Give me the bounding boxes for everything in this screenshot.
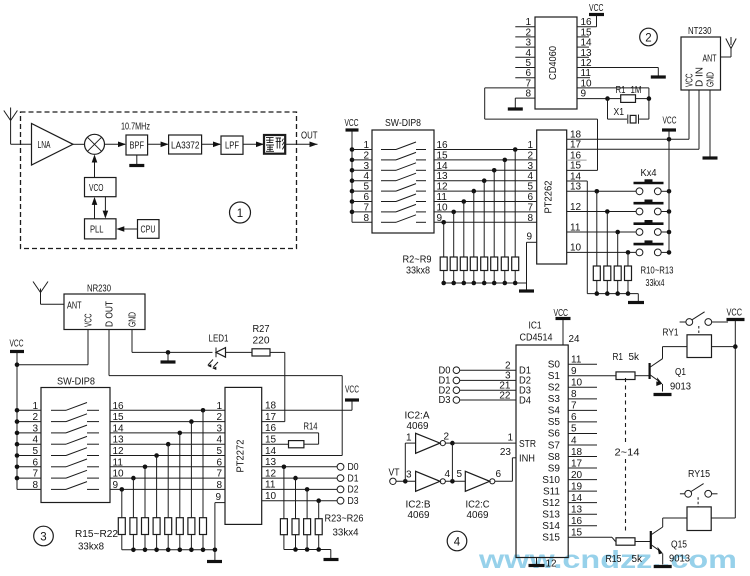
CD4060 right pin numbers [581,17,593,99]
svg-text:S3: S3 [548,394,561,405]
svg-text:LED1: LED1 [209,334,229,345]
wire PLL to VCO arrow up [92,197,98,219]
block LA3372 [169,135,202,154]
svg-text:5k: 5k [632,554,643,565]
ground at Q15 emitter [654,565,672,568]
svg-text:VCC: VCC [589,3,604,14]
svg-text:S15: S15 [542,533,560,544]
wire IC2:C to INH [495,447,535,481]
ground rail R23-R26 [284,547,339,559]
svg-text:33kx8: 33kx8 [78,542,104,553]
svg-text:VCC: VCC [345,118,359,129]
svg-text:S5: S5 [548,417,561,428]
wire NT230 DIN pin to PT2262 pin17 [567,90,699,149]
svg-text:RY1: RY1 [663,328,679,339]
LED1 [207,334,229,371]
svg-text:VT: VT [389,468,400,479]
svg-text:IC2:C: IC2:C [466,500,490,511]
svg-text:S9: S9 [548,463,561,474]
svg-text:10.7MHz: 10.7MHz [121,122,150,133]
module NR230 body [64,284,145,330]
svg-text:Q15: Q15 [671,540,687,551]
svg-text:7: 7 [527,202,533,213]
VCC symbol near keys [662,116,677,140]
svg-text:D0: D0 [348,462,359,473]
svg-text:CD4060: CD4060 [548,46,559,80]
svg-text:R10~R13: R10~R13 [641,266,674,277]
IC CD4060 left pin lines 1-8 [515,17,535,99]
svg-text:4069: 4069 [407,421,429,432]
svg-text:17: 17 [570,140,582,151]
ground at NT230 GND pin [703,90,718,158]
wire R27 to PT2272 pin17 VT [262,352,285,421]
svg-text:33kx8: 33kx8 [406,266,430,277]
svg-text:R15~R22: R15~R22 [75,529,118,540]
svg-text:6: 6 [496,469,502,480]
circled number 4 [447,531,467,551]
PT2272 right pin numbers [265,401,277,502]
svg-text:PT2272: PT2272 [235,439,246,472]
block CPU [138,220,160,239]
svg-text:BPF: BPF [130,141,145,152]
svg-text:8: 8 [216,480,222,491]
svg-text:D2: D2 [348,485,359,496]
svg-text:CPU: CPU [141,225,156,236]
svg-text:S6: S6 [548,429,561,440]
svg-text:NT230: NT230 [688,26,712,37]
svg-text:8: 8 [363,213,369,224]
SW-DIP8 section3 left pins [15,401,41,491]
block LPF [221,136,243,154]
circled number 1 [230,202,251,223]
PT2262 pin9 to ground rail [526,232,536,284]
resistors R23-R26 33kx4 [280,467,364,550]
svg-text:3: 3 [406,470,412,481]
wire CD4060 pin9 node [577,96,651,119]
svg-text:IC2:B: IC2:B [406,500,431,511]
svg-text:R2~R9: R2~R9 [403,255,432,266]
svg-text:2: 2 [32,412,38,423]
VCC rail right [712,308,745,519]
ground at CD4060 pin8 [508,98,523,109]
dashed repeat line 2~14 [615,378,640,531]
svg-text:S8: S8 [548,452,561,463]
svg-text:S4: S4 [548,406,561,417]
wire NR230 DOUT to PT2272 pin14 [109,330,342,456]
svg-text:R15: R15 [606,554,622,565]
svg-text:4: 4 [363,171,369,182]
svg-text:5: 5 [363,182,369,193]
svg-text:4069: 4069 [467,510,489,521]
resistors R10-R13 33kx4 [593,191,674,293]
resistors R2-R9 33kx8 [403,147,519,283]
wire antenna to LNA [11,143,32,145]
svg-text:VCC: VCC [10,339,24,350]
wire S1 to R1 [568,375,616,377]
ground at CD4060 pin12 [577,68,666,78]
svg-text:S7: S7 [548,440,561,451]
svg-text:8: 8 [525,89,531,100]
wire LA3372 to LPF with arrow [202,142,221,148]
wires PT2262 pins 13-10 to keys [567,189,636,255]
svg-text:22: 22 [499,390,511,401]
svg-text:4069: 4069 [408,510,430,521]
CD4060 pin11 stub [577,77,590,79]
svg-text:NR230: NR230 [87,284,111,295]
svg-text:5: 5 [457,469,463,480]
circled number 3 [34,526,54,546]
svg-text:2: 2 [363,150,369,161]
inverter IC2:A 4069 [405,411,453,454]
svg-text:3: 3 [40,532,46,544]
svg-text:2: 2 [216,412,222,423]
ground rail R10-R13 [587,291,644,302]
svg-text:4: 4 [216,435,222,446]
circled number 2 [640,28,658,46]
antenna at NT230 [721,37,737,57]
resistor R15 5k [606,538,651,565]
svg-text:5: 5 [32,446,38,457]
svg-text:9: 9 [581,89,587,100]
svg-text:220: 220 [253,336,270,347]
svg-text:33kx4: 33kx4 [333,528,359,539]
relay RY15 coil [663,469,736,531]
CD4060 pin15 stub [577,36,589,38]
svg-text:D1: D1 [348,473,359,484]
svg-text:D4: D4 [519,395,531,406]
resistor R1 1M [608,85,649,103]
svg-text:24: 24 [569,334,580,345]
transistor Q1 9013 [650,347,692,393]
svg-text:RY15: RY15 [688,469,710,480]
svg-text:PLL: PLL [90,225,104,236]
relay RY1 coil [663,328,712,358]
wire VCO to PLL arrow down [103,197,109,219]
svg-text:2: 2 [527,150,533,161]
svg-text:17: 17 [265,412,277,423]
svg-text:5: 5 [527,182,533,193]
svg-text:1: 1 [406,433,412,444]
ground at Q1 emitter [654,393,672,396]
CD4060 pin14 stub [577,46,589,48]
svg-text:VCC: VCC [727,308,743,319]
switch SW-DIP8 section3 body [41,377,110,503]
switch SW-DIP8 section2 body [372,118,434,233]
block PLL [85,219,117,239]
wire CPU to PLL with arrow [116,226,137,232]
block shaper (waveshaping) [264,135,285,154]
ceramic filter stub under BPF [129,155,144,166]
svg-text:7: 7 [216,469,222,480]
svg-text:INH: INH [519,454,535,465]
wire NT230 VCC pin to bus [688,90,690,139]
resistor R27 220 [252,324,285,356]
svg-text:D OUT: D OUT [105,301,116,327]
svg-text:4: 4 [527,171,533,182]
svg-text:3: 3 [527,161,533,172]
svg-text:3: 3 [216,423,222,434]
antenna (section 1 receiver) [4,108,18,145]
svg-text:VCC: VCC [345,385,359,396]
keys Kx4 pushbuttons [634,168,672,256]
NR230 vertical pin labels [84,301,139,327]
svg-text:VCC: VCC [663,116,677,127]
VCC rail to keys [668,139,670,252]
svg-text:8: 8 [32,480,38,491]
svg-text:S1: S1 [548,371,561,382]
VCC rail section2 [345,118,359,222]
svg-text:9013: 9013 [670,382,691,393]
bus SW-DIP8 to PT2272 [110,401,225,491]
watermark www.cndzz.com [478,546,737,574]
svg-text:4: 4 [454,537,461,549]
svg-text:12: 12 [546,559,557,570]
svg-text:D3: D3 [348,496,359,507]
IC1 CD4514 labels [520,321,553,344]
block VCO [85,178,117,197]
SW-DIP8 section2 right pin numbers [437,140,449,224]
IC PT2272 body [225,387,262,524]
PT2262 right pin numbers [570,130,582,254]
wire PT2262 pin14 to key ground rail [567,181,588,294]
svg-text:1: 1 [527,140,533,151]
mixer (circle with X) [85,134,105,154]
relay RY1 contacts [680,312,728,335]
wire NR230 VCC pin [15,330,88,368]
svg-text:R1: R1 [616,85,626,96]
IC U2 CD4060 body [535,17,577,109]
svg-text:ANT: ANT [67,301,82,312]
svg-text:S0: S0 [548,360,561,371]
svg-text:1: 1 [363,140,369,151]
outputs D0-D3 with terminals [262,462,359,507]
VCC at IC1 pin24 [554,308,580,345]
wire IC2 outputs to STR [450,433,536,484]
svg-text:15: 15 [570,161,582,172]
svg-text:X1: X1 [614,107,625,118]
inverter IC2:C 4069 [457,469,502,521]
svg-text:LNA: LNA [38,140,51,151]
svg-text:6: 6 [32,457,38,468]
svg-text:IC1: IC1 [529,321,542,332]
wire BPF to LA3372 with arrow [148,142,169,148]
svg-text:5: 5 [216,446,222,457]
svg-text:7: 7 [363,202,369,213]
CD4060 pin13 stub [577,56,589,58]
resistor R1 5k [613,352,650,380]
bus SW-DIP8 to PT2262 [434,140,537,224]
IC1 CD4514 body [516,345,568,558]
svg-text:4: 4 [32,435,38,446]
block BPF [126,135,148,155]
oscillator wire to PT2262 pin15 [485,119,598,170]
svg-text:1: 1 [216,401,222,412]
VCC at CD4060 pin16 [577,3,604,27]
svg-text:OUT: OUT [301,131,318,142]
svg-text:R1: R1 [613,352,624,363]
svg-text:IC2:A: IC2:A [405,411,430,422]
svg-text:1: 1 [237,208,243,220]
svg-text:6: 6 [363,192,369,203]
svg-text:8: 8 [527,213,533,224]
wire LED to R27 [226,351,253,353]
ground rail R2-R9 [441,281,534,291]
svg-text:PT2262: PT2262 [544,180,555,213]
wire PT2262 pin18 VCC bus [567,137,689,142]
wire S15 to R15 [568,537,615,541]
svg-text:R27: R27 [253,324,270,335]
wire LPF to shaper with arrow [243,142,264,148]
label OUT [301,131,318,142]
svg-text:1M: 1M [631,85,642,96]
resistors R15-R22 33kx8 [75,408,207,553]
svg-text:SW-DIP8: SW-DIP8 [57,377,95,388]
PT2262 pin16 stub [567,159,587,161]
svg-text:S10: S10 [542,475,560,486]
svg-text:GND: GND [128,312,139,327]
svg-text:CD4514: CD4514 [520,333,553,344]
transistor Q15 9013 [651,518,691,565]
svg-text:2: 2 [645,32,651,44]
wire CD4060 pin7 to oscillator net [485,88,535,119]
svg-text:23: 23 [500,447,512,458]
svg-text:33kx4: 33kx4 [646,278,665,289]
wire NR230 GND pin [132,330,213,355]
svg-text:LPF: LPF [225,141,239,152]
input VT terminal [389,443,416,484]
PT2272 pin9 to ground [215,492,225,550]
ground rail R15-R22 [122,548,222,562]
inverter IC2:B 4069 [406,469,466,521]
svg-text:6: 6 [216,457,222,468]
relay RY15 contacts [680,484,718,507]
svg-text:7: 7 [32,469,38,480]
svg-text:3: 3 [32,423,38,434]
svg-text:ANT: ANT [703,54,717,65]
svg-text:6: 6 [527,192,533,203]
ground at NR230 GND [161,352,176,362]
svg-text:2~14: 2~14 [615,448,640,459]
svg-text:9: 9 [215,492,221,503]
svg-text:S13: S13 [542,510,560,521]
svg-text:S12: S12 [542,498,560,509]
svg-text:14: 14 [265,446,277,457]
svg-text:9013: 9013 [669,554,690,565]
NT230 vertical pin labels [685,67,717,87]
wire mixer to BPF with arrow [105,142,127,148]
IC1 S0-S15 output pins [542,355,597,544]
VCC symbol section3 [10,339,25,490]
svg-text:R23~R26: R23~R26 [325,514,364,525]
svg-text:1: 1 [508,433,514,444]
svg-text:SW-DIP8: SW-DIP8 [385,118,421,129]
ground at IC1 pin12 [529,558,557,570]
svg-text:D IN: D IN [695,67,706,87]
svg-text:GND: GND [706,72,717,87]
wire LNA to mixer [73,143,85,145]
svg-text:3: 3 [363,161,369,172]
svg-text:S2: S2 [548,383,561,394]
svg-text:S14: S14 [542,521,560,532]
svg-text:LA3372: LA3372 [171,140,200,151]
IC PT2262 body [537,130,567,264]
svg-text:D3: D3 [439,395,451,406]
svg-text:R14: R14 [304,422,318,433]
wire shaper to OUT with arrow [285,142,317,148]
svg-text:STR: STR [519,439,536,450]
resistor R14 [262,422,319,448]
wire mixer to VCO with arrow up [92,155,98,178]
inputs D0-D3 to IC1 [439,361,532,407]
svg-text:S11: S11 [543,486,560,497]
dashed enclosure box section 1 [21,112,297,249]
svg-text:VCC: VCC [84,314,95,328]
label 10.7MHz [121,122,150,133]
svg-text:VCO: VCO [89,183,104,194]
svg-text:Kx4: Kx4 [641,168,657,179]
svg-text:2: 2 [444,432,450,443]
amplifier LNA [32,124,74,166]
VCC at PT2272 pin18 [262,385,359,411]
wire CD4060 pin10 to crystal [577,88,649,119]
antenna at NR230 [33,282,64,305]
crystal X1 [608,107,649,124]
svg-text:1: 1 [32,401,38,412]
svg-text:4: 4 [445,469,451,480]
SW-DIP8 section2 left pins [352,140,372,224]
svg-text:5k: 5k [629,352,640,363]
module NT230 body [681,26,721,90]
svg-text:Q1: Q1 [675,367,686,378]
svg-text:9: 9 [526,232,532,243]
